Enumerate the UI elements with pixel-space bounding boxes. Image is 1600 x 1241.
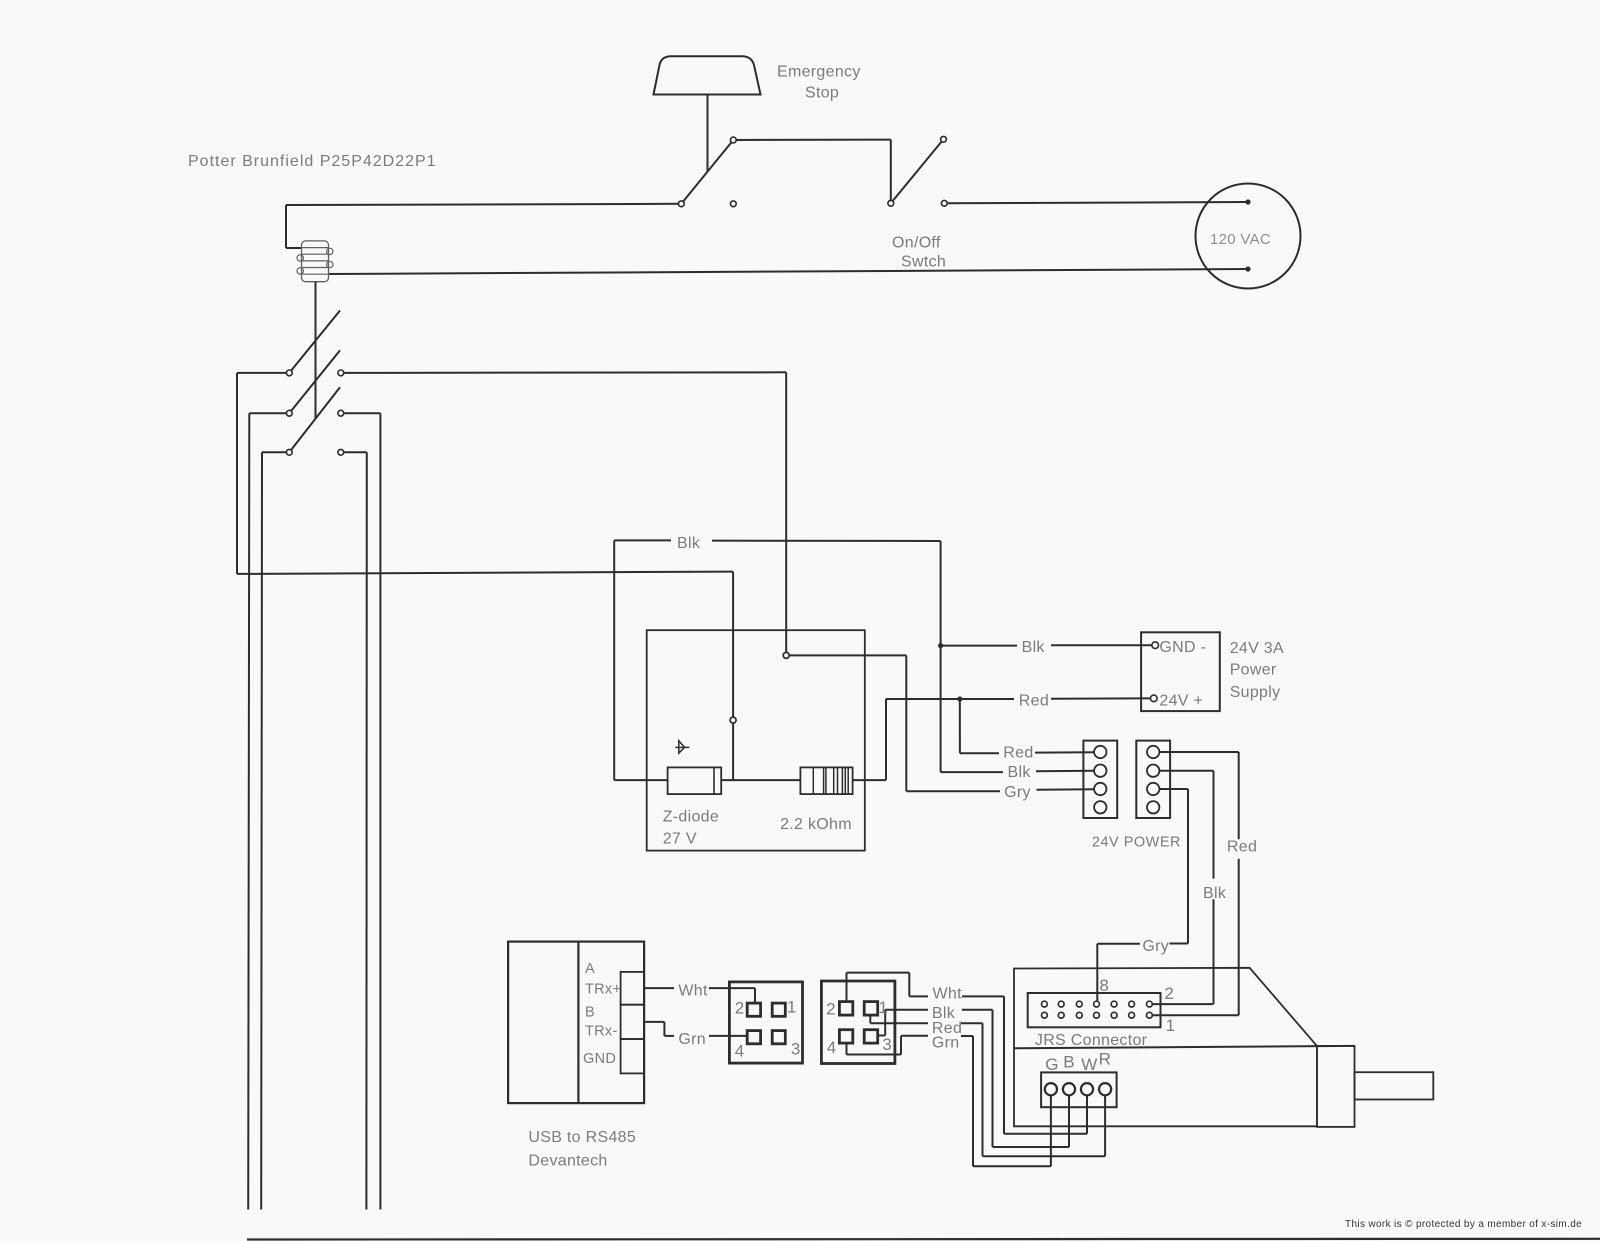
- svg-text:24V POWER: 24V POWER: [1092, 835, 1181, 851]
- svg-text:A: A: [585, 961, 595, 977]
- svg-text:Blk: Blk: [1203, 885, 1227, 902]
- svg-text:W: W: [1081, 1055, 1097, 1074]
- svg-text:4: 4: [827, 1038, 837, 1057]
- svg-text:USB to RS485: USB to RS485: [528, 1129, 636, 1146]
- svg-text:Devantech: Devantech: [528, 1153, 607, 1170]
- svg-text:JRS Connector: JRS Connector: [1035, 1032, 1148, 1049]
- svg-text:4: 4: [735, 1041, 745, 1060]
- svg-text:1: 1: [787, 998, 797, 1017]
- svg-text:GND -: GND -: [1159, 639, 1206, 656]
- svg-text:TRx+: TRx+: [585, 981, 621, 997]
- svg-text:Stop: Stop: [805, 85, 839, 102]
- svg-text:Power: Power: [1230, 662, 1277, 679]
- svg-text:B: B: [585, 1005, 595, 1021]
- svg-text:Gry: Gry: [1004, 784, 1031, 801]
- svg-text:2: 2: [826, 1000, 836, 1019]
- svg-text:2.2 kOhm: 2.2 kOhm: [780, 816, 852, 833]
- svg-text:G: G: [1045, 1055, 1059, 1074]
- svg-text:24V 3A: 24V 3A: [1230, 640, 1284, 657]
- svg-text:TRx-: TRx-: [585, 1023, 618, 1039]
- svg-text:2: 2: [735, 999, 745, 1018]
- svg-text:1: 1: [1166, 1016, 1176, 1035]
- svg-text:Supply: Supply: [1230, 684, 1281, 701]
- svg-text:2: 2: [1164, 984, 1174, 1003]
- svg-text:120 VAC: 120 VAC: [1210, 231, 1271, 248]
- svg-text:8: 8: [1099, 976, 1109, 995]
- svg-text:27 V: 27 V: [663, 830, 697, 847]
- svg-text:On/Off: On/Off: [892, 235, 941, 252]
- svg-text:Z-diode: Z-diode: [663, 809, 719, 826]
- svg-text:Blk: Blk: [677, 535, 701, 552]
- svg-text:Potter Brunfield P25P42D22P1: Potter Brunfield P25P42D22P1: [188, 153, 437, 170]
- svg-text:R: R: [1099, 1050, 1112, 1069]
- svg-text:B: B: [1063, 1052, 1075, 1071]
- svg-text:Red: Red: [1003, 745, 1033, 762]
- svg-text:This work is © protected by a: This work is © protected by a member of …: [1345, 1219, 1582, 1230]
- svg-text:Wht: Wht: [678, 982, 708, 999]
- svg-text:Wht: Wht: [933, 985, 963, 1002]
- svg-text:1: 1: [878, 998, 888, 1017]
- svg-text:Swtch: Swtch: [901, 253, 946, 270]
- svg-text:3: 3: [791, 1040, 801, 1059]
- svg-text:24V +: 24V +: [1159, 693, 1203, 710]
- svg-text:Red: Red: [1019, 693, 1049, 710]
- svg-text:3: 3: [882, 1035, 892, 1054]
- svg-text:Gry: Gry: [1142, 938, 1169, 955]
- svg-text:Emergency: Emergency: [777, 64, 861, 81]
- svg-text:Grn: Grn: [932, 1034, 960, 1051]
- svg-text:Blk: Blk: [1022, 639, 1046, 656]
- svg-text:Blk: Blk: [1008, 764, 1032, 781]
- svg-text:Red: Red: [1227, 839, 1257, 856]
- svg-text:GND: GND: [583, 1051, 616, 1067]
- svg-text:Grn: Grn: [678, 1031, 706, 1048]
